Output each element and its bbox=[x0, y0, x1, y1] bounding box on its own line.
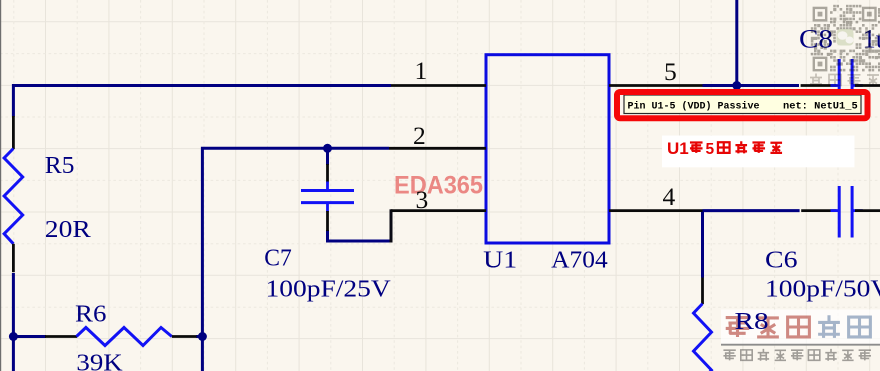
pin 5 bbox=[609, 84, 703, 87]
wire net2 horizontal bbox=[202, 148, 389, 371]
svg-text:100pF/25V: 100pF/25V bbox=[266, 275, 392, 302]
watermark EDA365 bbox=[394, 171, 483, 199]
svg-text:1: 1 bbox=[415, 56, 428, 85]
svg-text:5: 5 bbox=[706, 141, 715, 158]
svg-text:39K: 39K bbox=[76, 350, 123, 371]
svg-text:Pin U1-5 (VDD) Passive: Pin U1-5 (VDD) Passive bbox=[628, 101, 760, 113]
svg-text:U1: U1 bbox=[667, 139, 689, 158]
wire R6 left bbox=[13, 335, 46, 338]
capacitor C8 bbox=[799, 59, 880, 113]
wire C7 bottom to pin3 bbox=[328, 230, 392, 241]
svg-text:U1: U1 bbox=[483, 247, 517, 274]
svg-text:C7: C7 bbox=[264, 245, 292, 272]
logo underline bbox=[721, 344, 880, 346]
logo watermark text bbox=[726, 315, 871, 338]
red annotation frame bbox=[617, 92, 868, 118]
red annotation text U1 pin5 description bbox=[667, 139, 782, 158]
tooltip box bbox=[624, 95, 861, 114]
pin 1 bbox=[391, 84, 486, 87]
svg-text:100pF/50V: 100pF/50V bbox=[765, 275, 880, 302]
wire R6 right bbox=[196, 335, 202, 338]
svg-text:A704: A704 bbox=[551, 247, 608, 274]
junction net5 bbox=[732, 81, 741, 90]
svg-text:R6: R6 bbox=[75, 301, 106, 328]
wire gap nib net5 bbox=[799, 84, 801, 88]
IC U1 body bbox=[486, 55, 609, 243]
QR wechat logo bbox=[837, 29, 854, 46]
capacitor C6 bbox=[800, 186, 880, 238]
capacitor C7 bbox=[301, 164, 354, 231]
pin 2 bbox=[389, 147, 486, 150]
logo watermark background bbox=[721, 310, 880, 345]
junction R6/net2 bbox=[198, 332, 207, 341]
white callout background bbox=[662, 136, 855, 168]
wire riser to pin3 bbox=[390, 209, 393, 242]
svg-text:R5: R5 bbox=[45, 152, 75, 179]
wire net5 vertical to top bbox=[735, 0, 738, 86]
svg-text:4: 4 bbox=[663, 182, 676, 211]
logo subtitle bbox=[723, 349, 871, 361]
wire net4 vertical to R8 bbox=[701, 211, 704, 278]
resistor R5 bbox=[4, 116, 23, 272]
svg-text:C6: C6 bbox=[765, 247, 798, 274]
svg-text:net: NetU1_5: net: NetU1_5 bbox=[783, 102, 858, 113]
pin 3 bbox=[391, 209, 486, 212]
junction C7/net2 bbox=[323, 144, 332, 153]
wire R5 bottom to junction bbox=[12, 273, 15, 371]
svg-text:R8: R8 bbox=[735, 308, 769, 335]
QR code watermark bbox=[811, 5, 880, 72]
svg-text:20R: 20R bbox=[45, 216, 92, 243]
wire C7 top stub bbox=[326, 148, 329, 165]
sheet left border bbox=[0, 0, 2, 371]
junction R5/R6 bbox=[9, 332, 18, 341]
wire net4 horizontal bbox=[703, 209, 801, 212]
wire net1 horizontal bbox=[13, 86, 391, 117]
resistor R6 bbox=[45, 328, 197, 346]
wire gap nib net4 bbox=[800, 209, 802, 213]
pin 4 bbox=[609, 209, 703, 212]
wire net5 horizontal bbox=[703, 84, 800, 87]
svg-text:5: 5 bbox=[664, 57, 677, 86]
wechat caption 微信联系 bbox=[810, 74, 879, 87]
svg-text:3: 3 bbox=[416, 185, 429, 214]
resistor R8 bbox=[694, 278, 712, 371]
svg-text:EDA365: EDA365 bbox=[394, 171, 483, 199]
svg-text:2: 2 bbox=[413, 121, 426, 150]
